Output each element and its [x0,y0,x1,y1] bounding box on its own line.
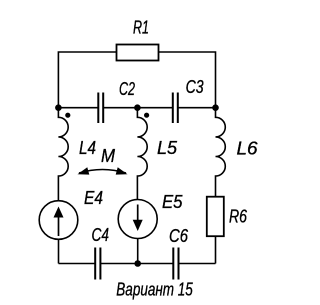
resistor R1 [117,45,159,61]
arrow of source E5 [137,205,139,222]
node dot middle mid rail [134,104,141,111]
capacitor C6 [173,248,178,280]
svg-text:R1: R1 [133,16,149,37]
svg-text:L4: L4 [79,137,96,158]
inductor L4 [58,108,68,201]
capacitor C4 [95,248,100,280]
wire bottom rail right segment [179,263,216,265]
node dot right mid rail [212,104,219,111]
resistor R6 [207,197,224,237]
wire top-right: R1 to top-right corner down to mid rail [159,52,216,108]
svg-text:C2: C2 [119,78,135,99]
arrowhead left of M arc [78,167,90,174]
svg-text:C6: C6 [169,225,189,246]
node dot left mid rail [55,104,62,111]
polarity dot L5 [144,113,149,118]
capacitor C3 [173,93,178,124]
svg-text:L5: L5 [157,137,178,158]
wire bottom rail left segment [59,263,95,265]
arrowhead right of M arc [116,167,128,174]
wire top-left: left vertical + top rail to R1 [58,52,116,108]
mutual inductance arc M [79,170,126,174]
svg-text:Вариант 15: Вариант 15 [116,279,193,300]
svg-text:M: M [101,145,116,166]
wire mid rail right segment [178,107,216,109]
svg-text:C3: C3 [186,76,205,97]
wire E4 to bottom rail [58,239,60,263]
svg-text:L6: L6 [237,138,259,159]
inductor L5 [137,108,147,200]
svg-text:R6: R6 [229,205,248,226]
wire R6 to bottom rail [215,236,217,263]
svg-text:C4: C4 [92,224,110,245]
arrow of source E4 [58,216,60,236]
wire E5 to bottom rail [137,239,139,264]
wire mid rail middle segment [103,107,172,109]
svg-text:E5: E5 [162,191,183,212]
wire bottom rail middle segment [100,263,172,265]
current source E4 [39,201,78,240]
wire mid rail left segment [58,107,97,109]
node dot bottom rail [134,260,141,267]
polarity dot L4 [65,113,70,118]
current source E5 [118,200,157,239]
svg-text:E4: E4 [84,187,103,208]
capacitor C2 [98,93,103,124]
inductor L6 [216,108,226,197]
